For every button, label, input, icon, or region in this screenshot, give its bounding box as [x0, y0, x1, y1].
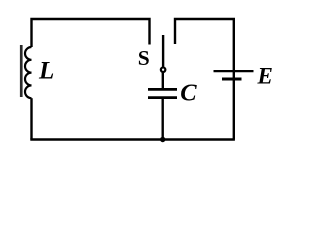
wire left vertical bottom — [30, 98, 32, 139]
switch S pivot circle — [161, 67, 166, 72]
wire capacitor upper lead — [162, 73, 164, 89]
switch S blade — [162, 35, 164, 67]
junction node dot — [160, 137, 165, 142]
wire top-left segment with left stub — [32, 19, 150, 47]
battery E short plate — [222, 78, 242, 81]
inductor core bar — [20, 45, 23, 97]
wire bottom — [30, 138, 235, 141]
wire right vertical bottom — [233, 79, 235, 140]
capacitor C top plate — [148, 88, 177, 91]
wire capacitor lower lead — [161, 99, 163, 140]
battery E long plate — [214, 70, 254, 72]
wire top-right segment with right stub — [175, 19, 234, 70]
svg-text:E: E — [257, 64, 273, 89]
wire right vertical middle (between plates) — [233, 71, 235, 79]
svg-text:C: C — [180, 80, 197, 107]
capacitor C bottom plate — [148, 96, 177, 99]
svg-text:L: L — [38, 58, 54, 85]
inductor L coil — [25, 47, 32, 98]
svg-text:S: S — [138, 46, 150, 70]
